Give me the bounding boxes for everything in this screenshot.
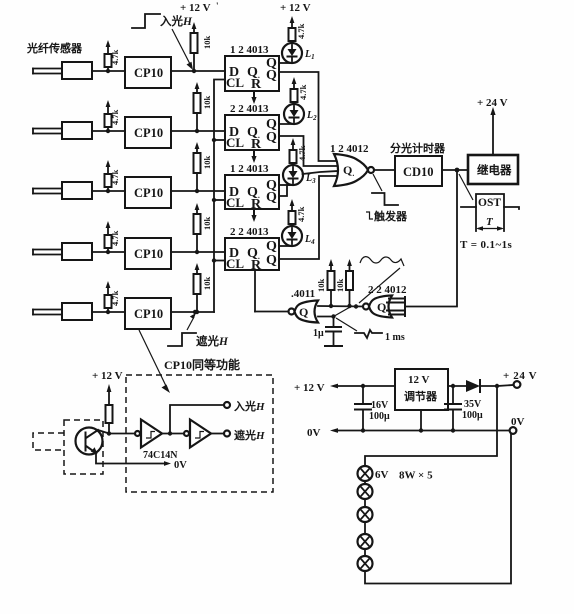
power +12V label (supply) [294,382,338,394]
svg-text:10k: 10k [202,277,212,291]
svg-text:16V: 16V [371,400,389,411]
svg-text:4.7k: 4.7k [296,206,306,222]
amplifier CP10 #4 [125,238,171,269]
resistor 4.7k channel 3 [105,160,121,193]
wire reset line to U4 R pin [254,270,256,312]
svg-text:T = 0.1~1s: T = 0.1~1s [460,239,512,251]
svg-text:+ 12 V: + 12 V [294,382,325,394]
resistor 10k (RC left) [316,259,335,308]
resistor (phototransistor load) [106,384,113,436]
resistor 4.7k channel 2 [105,100,121,133]
diode D1 [466,380,499,392]
wire U3 Q to LED L3 [279,185,293,196]
wire inverter junction [162,431,184,435]
svg-text:+ 12 V: + 12 V [180,2,211,14]
capacitor 1u [313,317,341,347]
svg-text:Q: Q [377,300,386,314]
svg-text:1 2 4013: 1 2 4013 [230,44,269,56]
resistor 4.7k channel 1 [105,40,121,73]
svg-text:4.7k: 4.7k [110,49,120,65]
wire U4 Qbar to NAND input 4 [279,176,338,259]
wire sensor S3 to CP10 [92,190,125,192]
fiber sensor S5 [33,303,92,320]
svg-text:0V: 0V [307,427,321,439]
capacitor 35V 100u [445,386,483,431]
svg-text:CL: CL [226,135,244,150]
reset stub flip-flop U2 [251,150,256,163]
terminal 遮光H [224,428,265,442]
pointer arrow 入光H to node [172,29,193,70]
lamp LP4 6V 8W [358,522,373,549]
wire emitter to 0V [96,453,187,471]
label 2 2 4012 [368,284,407,296]
svg-text:1μ: 1μ [313,328,324,339]
svg-text:10k: 10k [202,96,212,110]
svg-text:CP10: CP10 [134,66,163,80]
svg-text:1 ms: 1 ms [385,332,405,343]
svg-text:R: R [251,197,262,212]
svg-text:10k: 10k [202,36,212,50]
wire sensor S5 to CP10 [92,311,125,313]
LED L3 [283,165,303,185]
LED L1 [282,43,302,63]
svg-text:CD10: CD10 [403,165,434,179]
svg-text:4.7k: 4.7k [297,145,307,161]
amplifier CP10 #3 [125,177,171,208]
label L4 [304,234,315,246]
lamp LP3 6V 8W [358,499,373,522]
svg-text:': ' [216,1,219,11]
svg-text:CP10: CP10 [134,247,163,261]
svg-text:继电器: 继电器 [477,163,512,177]
svg-text:Q: Q [266,68,277,83]
resistor 10k channel 4 [194,203,213,254]
wire to 入光H terminal [170,405,224,434]
svg-text:CP10: CP10 [134,126,163,140]
svg-text:R: R [251,77,262,92]
wire U1 Qbar to NAND input 1 [279,72,338,161]
label 2 2 4013 [230,103,269,115]
svg-text:2 2 4013: 2 2 4013 [230,103,269,115]
NAND gate U8 2/2 4012 (mirrored) [363,296,392,318]
svg-text:分光计时器: 分光计时器 [390,141,446,155]
wire sensor S1 to CP10 [92,70,125,72]
pointer arrow node to OST [459,174,473,200]
label 1 2 4013 [230,163,269,175]
svg-text:10k: 10k [335,279,345,293]
svg-text:R: R [251,258,262,273]
flip-flop U3 1/2 4013 [225,175,279,212]
label CP10同等功能 [164,357,240,372]
one-shot OST pulse symbol [461,194,519,231]
label 74C14N [143,450,178,461]
resistor 4.7k channel 5 [105,281,121,314]
svg-text:4.7k: 4.7k [110,109,120,125]
wire U4 Q to LED L4 [279,245,292,247]
svg-text:Q: Q [299,305,308,319]
schmitt inverter U9a 74C14 [135,420,162,448]
power +12V label (top, over 10k pull-ups) [180,1,219,14]
svg-text:4.7k: 4.7k [110,169,120,185]
svg-text:遮光H: 遮光H [196,334,229,348]
svg-text:10k: 10k [202,217,212,231]
amplifier CP10 #2 [125,117,171,148]
svg-text:2 2 4012: 2 2 4012 [368,284,407,296]
fiber sensor S3 [33,182,92,199]
node annotation 遮光H waveform [168,310,229,348]
wire relay to +24V [490,107,495,155]
resistor 4.7k for LED L3 [290,138,308,165]
svg-text:10k: 10k [202,156,212,170]
svg-text:Q: Q [266,190,277,205]
svg-text:Q: Q [266,253,277,268]
lamp LP2 6V 8W [358,481,373,499]
svg-text:CL: CL [226,75,244,90]
svg-text:+ 12 V: + 12 V [92,370,123,382]
svg-text:6V: 6V [375,469,389,481]
power 0V label (supply) [307,427,338,439]
svg-text:4.7k: 4.7k [110,290,120,306]
power +24V label (relay) [477,97,508,109]
wire sensor S2 to CP10 [92,130,125,132]
label L3 [305,173,316,185]
flip-flop U4 1/2 4013 [225,238,279,273]
lamp LP5 6V 8W [358,549,373,571]
wire +12V rail [336,384,395,388]
power +12V label (equivalent circuit) [92,370,123,382]
resistor 10k channel 1 [191,22,213,73]
svg-text:CL: CL [226,195,244,210]
wire CP10 #4 output to D input [171,251,225,253]
svg-text:4.7k: 4.7k [296,23,306,39]
svg-text:R: R [251,137,262,152]
wire node to inverter input [109,433,135,435]
resistor 10k channel 2 [194,82,213,133]
wire U7 output to reset line [255,311,289,313]
pointer arrow 遮光H to node [187,313,196,330]
svg-text:调节器: 调节器 [404,389,438,403]
annotation falling-edge trigger waveform [372,174,398,205]
NAND gate U5 1/2 4012 [334,154,374,186]
schmitt inverter U9b 74C14 [184,420,211,448]
svg-text:12 V: 12 V [408,374,430,386]
svg-text:光纤传感器: 光纤传感器 [26,41,83,55]
wire U5 output to CD10 [374,169,395,171]
wire CD10 node down to NAND U6 input [405,170,457,307]
terminal 入光H [224,399,265,413]
annotation glitch squiggle [359,257,404,303]
lamp LP1 6V 8W [358,466,434,482]
wire sensor S4 to CP10 [92,251,125,253]
wire CP10 #2 output to D input [171,130,225,132]
svg-text:OST: OST [478,197,501,209]
label L2 [306,110,317,122]
wire lamp chain return to 0V [365,434,511,584]
svg-text:+ 12 V: + 12 V [280,2,311,14]
svg-text:CP10: CP10 [134,307,163,321]
amplifier CP10 #5 [125,298,171,329]
capacitor 16V 100u [355,386,390,431]
wire CP10 #1 output to D input [171,70,225,72]
wire CP10 #3 output to D input [171,190,225,192]
resistor 4.7k channel 4 [105,221,121,254]
svg-text:35V: 35V [464,399,482,410]
resistor 4.7k for LED L1 [280,2,311,43]
svg-text:0V: 0V [174,460,187,471]
wire clock bus (CL line, all flip-flops) [212,80,225,313]
ground (capacitor 1u) [325,345,342,347]
svg-text:Q: Q [266,130,277,145]
wire CP10 #5 output to clock bus [171,311,214,313]
NAND gate U7 4011 (mirrored) [289,301,319,323]
svg-text:.4011: .4011 [291,288,315,300]
label 2 2 4013 [230,226,269,238]
dashed fiber stub [33,433,64,450]
annotation 1 ms notch waveform [336,318,405,343]
resistor 10k channel 3 [194,142,213,193]
terminal 0V [510,416,525,434]
svg-text:遮光H: 遮光H [234,428,265,442]
label 4011 [291,288,315,300]
svg-text:CP10: CP10 [134,186,163,200]
resistor 10k (RC right) [335,259,353,308]
resistor 4.7k for LED L2 [291,77,309,104]
resistor 4.7k for LED L4 [289,199,307,226]
reset stub flip-flop U1 [251,91,256,104]
wire U2 Q to LED L2 [279,123,294,125]
wire +24V down to lamp chain [365,386,497,466]
flip-flop U1 1/2 4013 [225,56,279,92]
wire node line 4011 to 4012 [318,304,366,308]
svg-text:100μ: 100μ [462,410,483,421]
label 1 2 4013 [230,44,269,56]
svg-text:入光H: 入光H [160,14,193,28]
phototransistor Q1 [76,428,110,455]
amplifier CP10 #1 [125,57,171,88]
svg-text:触发器: 触发器 [373,209,408,223]
svg-text:+ 24 V: + 24 V [477,97,508,109]
svg-text:2 2 4013: 2 2 4013 [230,226,269,238]
reset stub flip-flop U3 [251,209,256,222]
LED L4 [282,226,302,246]
label: fiber sensor title 光纤传感器 [26,41,83,55]
wire U8 input bundle [387,297,405,316]
wire U7 lower input to capacitor node [318,307,351,319]
svg-text:1 2 4013: 1 2 4013 [230,163,269,175]
svg-text:1 2 4012: 1 2 4012 [330,143,369,155]
svg-text:0V: 0V [511,416,525,428]
wire to 遮光H terminal [211,433,224,435]
flip-flop U2 1/2 4013 [225,115,279,152]
node annotation 入光H rising-edge waveform [132,14,193,28]
terminal +24V [497,370,537,388]
counter CD10 [395,156,442,186]
wire 0V rail [336,428,509,432]
svg-text:CP10同等功能: CP10同等功能 [164,357,240,372]
LED L2 [284,104,304,124]
svg-text:100μ: 100μ [369,411,390,422]
wire U2 Qbar to NAND input 2 [279,136,338,166]
svg-text:4.7k: 4.7k [110,230,120,246]
label 1 2 4012 [330,143,369,155]
resistor 10k channel 5 [194,263,213,314]
svg-text:+ 24 V: + 24 V [503,370,537,382]
label L1 [304,49,315,61]
label T = 0.1~1s [460,239,512,251]
svg-text:10k: 10k [316,279,326,293]
svg-text:74C14N: 74C14N [143,450,178,461]
label 分光计时器 [390,141,446,155]
svg-text:4.7k: 4.7k [298,84,308,100]
fiber sensor S4 [33,243,92,260]
dashed equivalent-function box [126,375,273,492]
pointer arrow CP10 to equivalent box [139,330,170,393]
fiber sensor S1 [33,62,92,79]
dashed sensor head box [64,420,103,474]
wire regulator ground lead [419,410,423,433]
svg-text:CL: CL [226,256,244,271]
regulator 12V 调节器 [395,369,448,410]
fiber sensor S2 [33,122,92,139]
wire CD10 to relay [442,168,468,173]
svg-text:Q: Q [266,239,277,254]
wire regulator output rail [448,384,466,388]
svg-text:入光H: 入光H [234,399,265,413]
relay 继电器 [468,155,518,184]
wire LED L3 node to NAND input 3 [303,171,339,174]
wire U1 Q to LED L1 [279,62,292,64]
svg-text:8W × 5: 8W × 5 [399,470,433,482]
label 触发器 [366,209,408,223]
